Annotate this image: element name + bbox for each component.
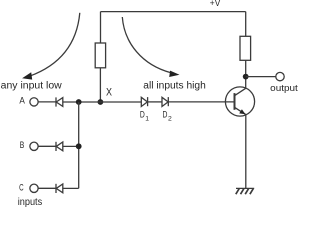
- resistor R1: [95, 43, 105, 68]
- wire B terminal to diode B: [38, 145, 56, 147]
- junction dot row A / bus: [76, 99, 82, 105]
- wire rail to R2: [245, 12, 247, 37]
- wire diode B to bus: [63, 145, 79, 147]
- svg-text:D: D: [163, 110, 168, 120]
- wire diode A to node X: [63, 101, 142, 103]
- input terminal A: [30, 98, 38, 106]
- wire D2 to transistor base: [168, 101, 234, 103]
- diode B cathode bar: [55, 142, 57, 151]
- svg-text:all inputs high: all inputs high: [143, 81, 206, 92]
- diode D1 cathode bar: [147, 97, 149, 106]
- ground bar: [236, 187, 254, 189]
- wire emitter to ground: [245, 115, 247, 189]
- transistor collector lead: [235, 88, 246, 95]
- junction dot row B: [76, 143, 82, 149]
- wire R2 to collector: [245, 60, 247, 88]
- transistor emitter lead: [235, 107, 246, 114]
- input bus vertical wire: [78, 102, 80, 188]
- ground hatch 3: [245, 189, 248, 195]
- transistor base bar: [234, 93, 236, 110]
- diode B triangle: [56, 142, 63, 151]
- svg-text:1: 1: [145, 115, 149, 122]
- node X junction dot: [98, 99, 104, 105]
- svg-text:B: B: [20, 140, 25, 151]
- wire rail to R1: [100, 12, 102, 43]
- annotation arrow: any input low (head): [22, 72, 32, 79]
- ground hatch 1: [236, 189, 239, 195]
- transistor Q1 body: [225, 87, 254, 116]
- output junction dot: [243, 74, 249, 80]
- wire D1 to D2: [148, 101, 162, 103]
- diode C triangle: [56, 184, 63, 193]
- output terminal circle: [276, 72, 284, 80]
- diode D2 cathode bar: [167, 97, 169, 106]
- svg-text:X: X: [106, 86, 113, 98]
- diode D2 triangle: [162, 97, 168, 106]
- input terminal B: [30, 142, 38, 150]
- svg-text:2: 2: [168, 115, 172, 122]
- wire to output terminal: [246, 76, 276, 78]
- ground hatch 2: [241, 189, 244, 195]
- svg-text:any input low: any input low: [1, 81, 63, 92]
- ground hatch 4: [250, 189, 253, 195]
- wire A terminal to diode A: [38, 101, 56, 103]
- svg-text:C: C: [19, 182, 24, 193]
- svg-text:+V: +V: [210, 0, 221, 8]
- diode C cathode bar: [55, 184, 57, 193]
- +V supply rail: [101, 11, 246, 13]
- annotation arrow: any input low (curve): [30, 13, 80, 76]
- svg-text:output: output: [270, 82, 298, 93]
- diode D1 triangle: [141, 97, 147, 106]
- resistor R2: [240, 36, 251, 60]
- svg-text:A: A: [19, 96, 25, 107]
- svg-text:inputs: inputs: [18, 197, 43, 208]
- wire C terminal to diode C: [38, 187, 56, 189]
- diode A triangle: [56, 98, 63, 107]
- annotation arrow: all inputs high (curve): [122, 17, 171, 73]
- annotation arrow: all inputs high (head): [169, 71, 179, 77]
- input terminal C: [30, 184, 38, 192]
- emitter arrowhead: [239, 109, 245, 114]
- wire diode C to bus corner: [63, 187, 79, 189]
- diode A cathode bar: [55, 97, 57, 106]
- wire R1 to node X: [99, 68, 101, 102]
